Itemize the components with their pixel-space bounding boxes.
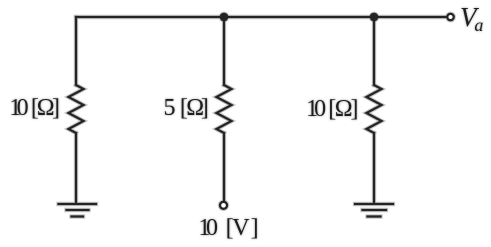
main line pass xyxy=(59,14,454,217)
soft edge underlay pass xyxy=(59,14,454,217)
label 10 [V] bottom xyxy=(0,0,491,1)
label Va xyxy=(0,0,491,1)
label 10 [Ohm] left xyxy=(0,0,491,1)
label 5 [Ohm] middle xyxy=(0,0,491,1)
label 10 [Ohm] right xyxy=(0,0,491,1)
